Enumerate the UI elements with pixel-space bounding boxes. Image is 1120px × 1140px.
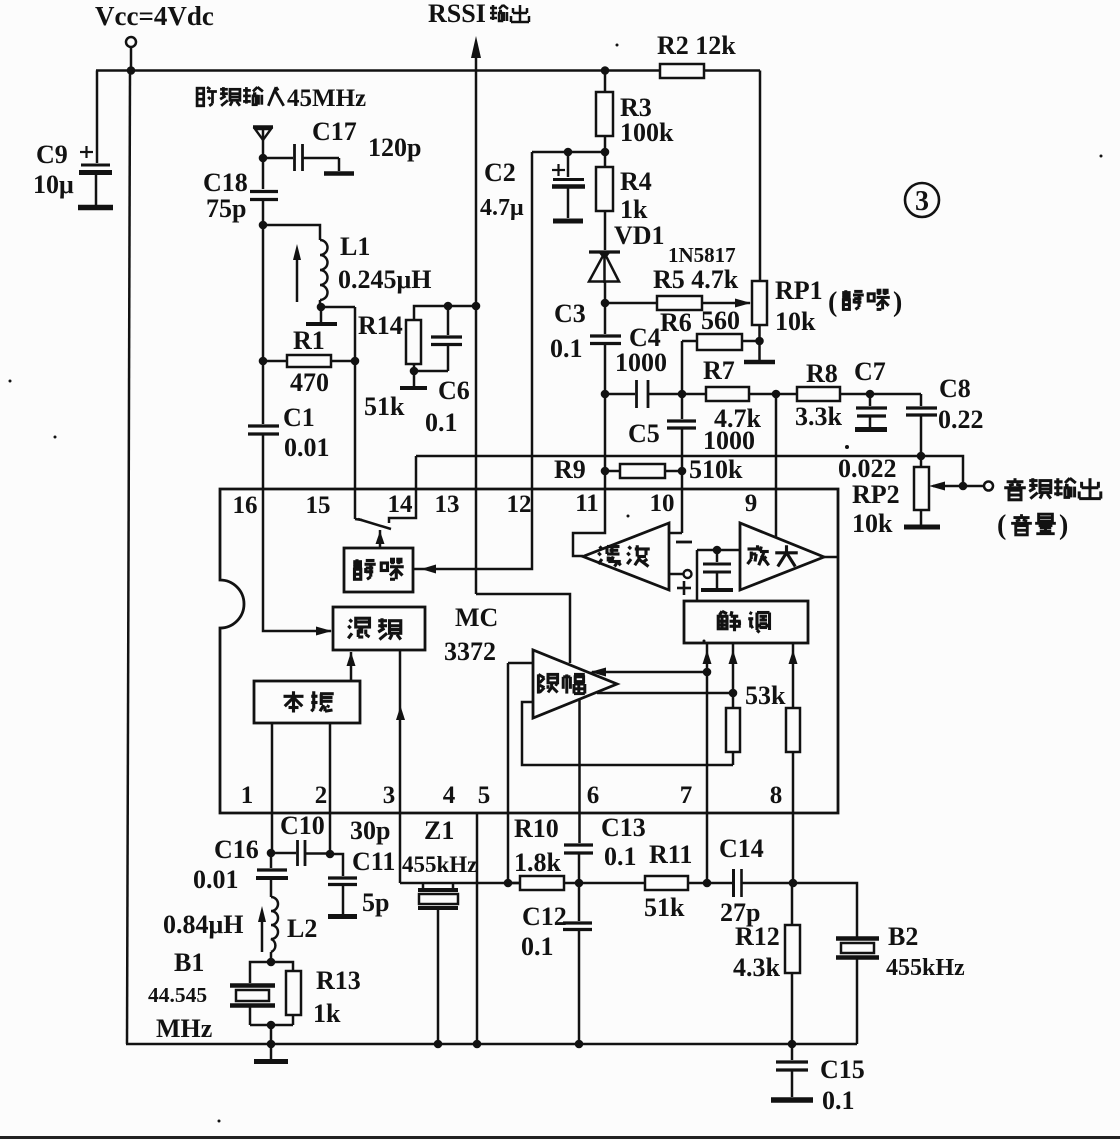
svg-text:1N5817: 1N5817 [668, 243, 736, 267]
svg-text:(: ( [997, 510, 1006, 541]
svg-text:1k: 1k [313, 999, 341, 1028]
svg-text:C5: C5 [628, 419, 660, 448]
svg-text:10k: 10k [775, 307, 816, 336]
label (volume) [997, 510, 1068, 541]
svg-text:0.245μH: 0.245μH [338, 265, 431, 294]
node out B / demod2 [729, 689, 738, 698]
capacitor C12 0.1 [521, 883, 592, 1044]
svg-text:0.1: 0.1 [604, 842, 637, 871]
svg-text:0.22: 0.22 [938, 405, 984, 434]
svg-text:R4: R4 [620, 167, 652, 196]
potentiometer RP2 10k [838, 454, 963, 538]
svg-text:R9: R9 [554, 455, 586, 484]
svg-text:51k: 51k [364, 392, 405, 421]
node C8/RP2 on audio line [917, 452, 926, 461]
label (jingzao) squelch [828, 287, 902, 318]
resistor R2 12k [657, 31, 736, 78]
node out A / demod1 [703, 668, 712, 677]
svg-text:1.8k: 1.8k [514, 848, 562, 877]
capacitor C17 120p [263, 117, 421, 174]
svg-text:RSSI: RSSI [428, 0, 486, 28]
node Z1 ground [434, 1040, 443, 1049]
svg-text:R6: R6 [660, 308, 692, 337]
node R10/C13/C12/R11 [575, 879, 584, 888]
resistor R10 1.8k [508, 814, 579, 890]
capacitor C2 4.7u electrolytic [480, 152, 585, 221]
svg-text:RP2: RP2 [852, 480, 900, 509]
wire pin2 [329, 723, 332, 854]
node R9 right [678, 467, 687, 476]
svg-text:0.84μH: 0.84μH [163, 910, 243, 939]
node C6 top [444, 302, 453, 311]
svg-text:): ) [1059, 510, 1068, 541]
svg-text:560: 560 [701, 306, 740, 335]
svg-text:44.545: 44.545 [148, 983, 207, 1007]
svg-text:1000: 1000 [703, 426, 755, 455]
node B1 bottom [267, 1021, 276, 1030]
svg-text:C13: C13 [601, 813, 646, 842]
capacitor C11 5p [328, 847, 395, 917]
capacitor C7 [854, 357, 887, 430]
wire C2 branch [532, 152, 605, 489]
local osc block [254, 681, 360, 723]
capacitor C9 (10u electrolytic) [33, 140, 113, 208]
pin label 15 [306, 492, 331, 519]
svg-text:C9: C9 [36, 140, 68, 169]
svg-text:R1: R1 [293, 326, 325, 355]
node C4 left [601, 390, 610, 399]
pin label 12 [507, 491, 532, 518]
squelch block [344, 548, 413, 592]
wire pin5 to limiter [508, 663, 532, 883]
wire bus right of R2 [704, 69, 760, 72]
node VD1/C3/R5 [601, 299, 610, 308]
svg-text:0.1: 0.1 [521, 932, 554, 961]
svg-text:10: 10 [650, 490, 675, 517]
amp block [740, 523, 824, 590]
pin label 13 [435, 491, 460, 518]
svg-text:3: 3 [383, 782, 396, 809]
node L2 bottom [267, 958, 276, 967]
node C10/pin2/C11 [326, 850, 335, 859]
svg-text:VD1: VD1 [614, 221, 665, 250]
svg-text:4.3k: 4.3k [733, 953, 781, 982]
node RP1 bottom [755, 337, 764, 346]
svg-text:C10: C10 [280, 811, 325, 840]
inductor L2 0.84uH [163, 897, 317, 962]
L2 tuning arrow [258, 906, 266, 952]
wire amp input / demod cap [697, 550, 740, 601]
wire C9 branch [96, 71, 99, 164]
crystal B2 455kHz [836, 922, 965, 1044]
svg-text:C6: C6 [438, 376, 470, 405]
wire ground bus [126, 1043, 857, 1046]
svg-text:0.1: 0.1 [550, 334, 583, 363]
resistor R4 1k [596, 152, 652, 250]
svg-text:8: 8 [770, 782, 783, 809]
svg-text:53k: 53k [745, 681, 786, 710]
node pin4 ground [473, 1040, 482, 1049]
svg-text:MHz: MHz [156, 1014, 212, 1043]
pin label 2 [315, 782, 328, 809]
svg-text:100k: 100k [620, 118, 674, 147]
node R1 left [259, 357, 268, 366]
L1 tuning arrow [293, 244, 301, 302]
pin label 14 [388, 491, 414, 518]
node demod cap [713, 546, 722, 555]
svg-text:MC: MC [455, 603, 498, 632]
node R11/C14/pin7 [703, 879, 712, 888]
node C2 top [564, 148, 573, 157]
pin label 11 [575, 490, 599, 517]
wire pin3 from mixer [396, 650, 405, 883]
resistor 53k second [786, 708, 800, 883]
resistor R8 3.3k [776, 359, 921, 431]
ground below B1 [254, 1059, 288, 1064]
pin label 1 [241, 782, 254, 809]
svg-text:0.022: 0.022 [838, 454, 897, 483]
resistor R6 560 [660, 306, 760, 350]
svg-text:0.01: 0.01 [193, 865, 239, 894]
pin label 6 [587, 782, 600, 809]
node R14 top / RSSI [472, 302, 481, 311]
pin label 9 [745, 490, 758, 517]
resistor R1 470 [263, 326, 355, 397]
audio output terminal [963, 482, 993, 491]
label RSSI output [428, 0, 529, 28]
crystal B1 44.545MHz [148, 948, 293, 1043]
node R14 bottom [410, 367, 419, 376]
svg-text:1k: 1k [620, 195, 648, 224]
svg-text:2: 2 [315, 782, 328, 809]
potentiometer RP1 10k [752, 276, 823, 341]
filter amp block [583, 523, 669, 590]
wire to B2 [793, 883, 857, 937]
capacitor C5 1000 [628, 394, 755, 533]
wire demod pin one [703, 643, 712, 813]
resistor R14 51k [358, 306, 476, 421]
node bus/R3 [601, 66, 610, 75]
wire pin13 to limiter [476, 594, 570, 663]
svg-text:10k: 10k [852, 509, 893, 538]
page edge artifact [0, 1136, 1120, 1139]
capacitor C6 0.1 [414, 306, 470, 437]
node C7 top [866, 390, 875, 399]
svg-text:51k: 51k [644, 893, 685, 922]
ground below RP1 [744, 341, 775, 362]
svg-text:R11: R11 [649, 840, 692, 869]
node pin1/C16/C10 [267, 849, 276, 858]
wire pin15 column [354, 307, 357, 519]
svg-text:C11: C11 [352, 847, 395, 876]
wire left Vcc rail [127, 71, 130, 1045]
node Vcc junction [127, 66, 136, 75]
label RF input 45MHz [197, 85, 366, 112]
svg-text:4: 4 [443, 782, 456, 809]
svg-text:455kHz: 455kHz [886, 955, 965, 981]
pin label 16 [233, 492, 258, 519]
wire pin10 to filter minus [669, 533, 692, 542]
resistor R7 4.7k [682, 356, 776, 433]
node B1 ground on bus [267, 1040, 276, 1049]
svg-text:7: 7 [680, 782, 693, 809]
svg-text:R2 12k: R2 12k [657, 31, 736, 60]
resistor R13 1k [271, 962, 361, 1028]
svg-text:11: 11 [575, 490, 599, 517]
svg-text:L1: L1 [340, 232, 370, 261]
svg-text:3.3k: 3.3k [795, 402, 843, 431]
resistor 53k first [726, 681, 786, 765]
svg-text:R10: R10 [514, 814, 559, 843]
wire limiter lower input loop [522, 702, 733, 765]
svg-text:RP1: RP1 [775, 276, 823, 305]
svg-text:C18: C18 [203, 168, 248, 197]
resistor R9 510k [554, 455, 743, 484]
resistor R5 4.7k [605, 265, 751, 310]
svg-text:R7: R7 [703, 356, 735, 385]
capacitor C13 0.1 [564, 813, 646, 883]
wire L1 to pin15 column [321, 306, 355, 309]
svg-text:C7: C7 [854, 357, 886, 386]
capacitor C16 0.01 [193, 835, 288, 897]
squelch switch contact pin14 [389, 456, 416, 523]
node R7/R8/pin9 [772, 390, 781, 399]
diode VD1 1N5817 [589, 221, 736, 303]
wire pin4 ground [476, 813, 479, 1044]
svg-text:12: 12 [507, 491, 532, 518]
svg-text:9: 9 [745, 490, 758, 517]
resistor R3 100k [596, 71, 674, 152]
wire RSSI / pin13 column [471, 36, 481, 594]
wire pin7 [706, 813, 709, 883]
wire pin11 column [604, 394, 607, 489]
svg-text:1000: 1000 [615, 348, 667, 377]
svg-text:Z1: Z1 [424, 816, 454, 845]
inductor L1 0.245uH [320, 232, 431, 307]
svg-text:13: 13 [435, 491, 460, 518]
capacitor C3 0.1 [550, 299, 621, 394]
mixer block [333, 607, 425, 650]
svg-text:10μ: 10μ [33, 170, 74, 199]
svg-text:C16: C16 [214, 835, 259, 864]
svg-text:C2: C2 [484, 158, 516, 187]
svg-text:455kHz: 455kHz [402, 852, 477, 877]
pin label 3 [383, 782, 396, 809]
svg-text:Vcc=4Vdc: Vcc=4Vdc [95, 1, 214, 31]
squelch switch arm [355, 519, 391, 529]
svg-text:C3: C3 [554, 299, 586, 328]
pin label 10 [650, 490, 675, 517]
svg-text:L2: L2 [287, 914, 317, 943]
svg-text:C17: C17 [312, 117, 357, 146]
svg-text:14: 14 [388, 491, 414, 518]
svg-text:): ) [893, 287, 902, 318]
svg-text:C12: C12 [522, 902, 567, 931]
svg-text:1: 1 [241, 782, 254, 809]
svg-text:(: ( [828, 287, 837, 318]
node R1 right [351, 357, 360, 366]
wire to L1 [263, 225, 320, 240]
resistor R11 51k [579, 840, 707, 922]
wire osc to mixer [347, 652, 356, 681]
svg-text:0.01: 0.01 [284, 433, 330, 462]
svg-text:5p: 5p [362, 888, 389, 917]
node R12 ground [788, 1040, 797, 1049]
svg-text:C15: C15 [820, 1055, 865, 1084]
ceramic filter Z1 455kHz [400, 816, 520, 1044]
wire pin11 to filter out [573, 489, 605, 556]
svg-text:4.7μ: 4.7μ [480, 195, 524, 221]
svg-text:B2: B2 [888, 922, 918, 951]
Vcc input terminal [126, 37, 136, 70]
capacitor C10 30p [271, 811, 390, 866]
svg-text:470: 470 [290, 368, 329, 397]
wire demod pin two [729, 643, 738, 708]
node L1 bottom [317, 303, 326, 312]
antenna [253, 127, 273, 158]
node C18 bottom junction [259, 221, 268, 230]
wire amp output [824, 556, 838, 559]
capacitor C1 0.01 [248, 225, 330, 489]
wire B1 to ground bus [270, 1025, 273, 1060]
wire pin9 to amp [775, 394, 778, 537]
svg-text:R13: R13 [316, 966, 361, 995]
capacitor C15 0.1 [771, 1044, 865, 1115]
svg-text:C8: C8 [939, 374, 971, 403]
ground stub below L1 [306, 307, 337, 324]
capacitor C14 27p [707, 834, 793, 927]
filter plus input [669, 570, 692, 595]
svg-text:45MHz: 45MHz [287, 85, 366, 112]
node pin8/R12/B2 [789, 879, 798, 888]
wire audio line pin14 [416, 456, 963, 486]
svg-text:75p: 75p [206, 194, 246, 223]
node R9 left [601, 467, 610, 476]
squelch arrow to switch [376, 530, 385, 549]
pin label 5 [478, 782, 491, 809]
pin label 8 [770, 782, 783, 809]
svg-text:3: 3 [915, 186, 929, 217]
wire limiter out B [597, 692, 733, 695]
capacitor internal quad cap [701, 550, 733, 590]
svg-text:B1: B1 [174, 948, 204, 977]
capacitor C8 0.22 [906, 374, 984, 467]
resistor R12 4.3k [733, 883, 800, 1044]
svg-text:3372: 3372 [444, 637, 496, 666]
svg-text:C14: C14 [719, 834, 764, 863]
capacitor C4 1000 [605, 323, 682, 408]
wire pin16 to mixer [263, 489, 332, 636]
node pin5/R10 [504, 879, 513, 888]
node R3/R4/C2 [601, 148, 610, 157]
pin label 4 [443, 782, 456, 809]
wire limiter out A [590, 668, 707, 677]
svg-text:30p: 30p [350, 816, 390, 845]
demod block [684, 601, 808, 643]
wire pin1 [271, 723, 274, 853]
svg-text:5: 5 [478, 782, 491, 809]
wire pin6 from limiter [578, 699, 581, 813]
node C12 ground [575, 1040, 584, 1049]
node C4/C5/R7 [678, 390, 687, 399]
wire R6 to row [681, 341, 684, 394]
wire pin12 to squelch [414, 489, 532, 574]
svg-text:0.1: 0.1 [822, 1086, 855, 1115]
wire demod pin three [789, 643, 798, 708]
svg-text:0.1: 0.1 [425, 408, 458, 437]
ground below R14 [400, 371, 427, 388]
power label Vcc=4Vdc [95, 1, 214, 31]
pin label 7 [680, 782, 693, 809]
svg-text:16: 16 [233, 492, 258, 519]
limiter amp block [533, 650, 617, 718]
svg-text:R8: R8 [806, 359, 838, 388]
label audio output [1004, 478, 1101, 500]
svg-text:15: 15 [306, 492, 331, 519]
svg-text:R14: R14 [358, 311, 403, 340]
node antenna junction [259, 154, 268, 163]
IC MC3372 body [220, 489, 838, 813]
wire Vcc top bus [96, 69, 660, 72]
svg-text:R5 4.7k: R5 4.7k [653, 265, 739, 294]
svg-text:R12: R12 [735, 922, 780, 951]
svg-text:510k: 510k [689, 455, 743, 484]
svg-text:120p: 120p [368, 133, 421, 162]
capacitor C18 75p [203, 158, 278, 225]
circled 3 figure number [905, 183, 939, 217]
wire R2 to RP1 [759, 71, 762, 282]
svg-text:6: 6 [587, 782, 600, 809]
svg-text:C1: C1 [283, 403, 315, 432]
node audio output junction [959, 482, 968, 491]
